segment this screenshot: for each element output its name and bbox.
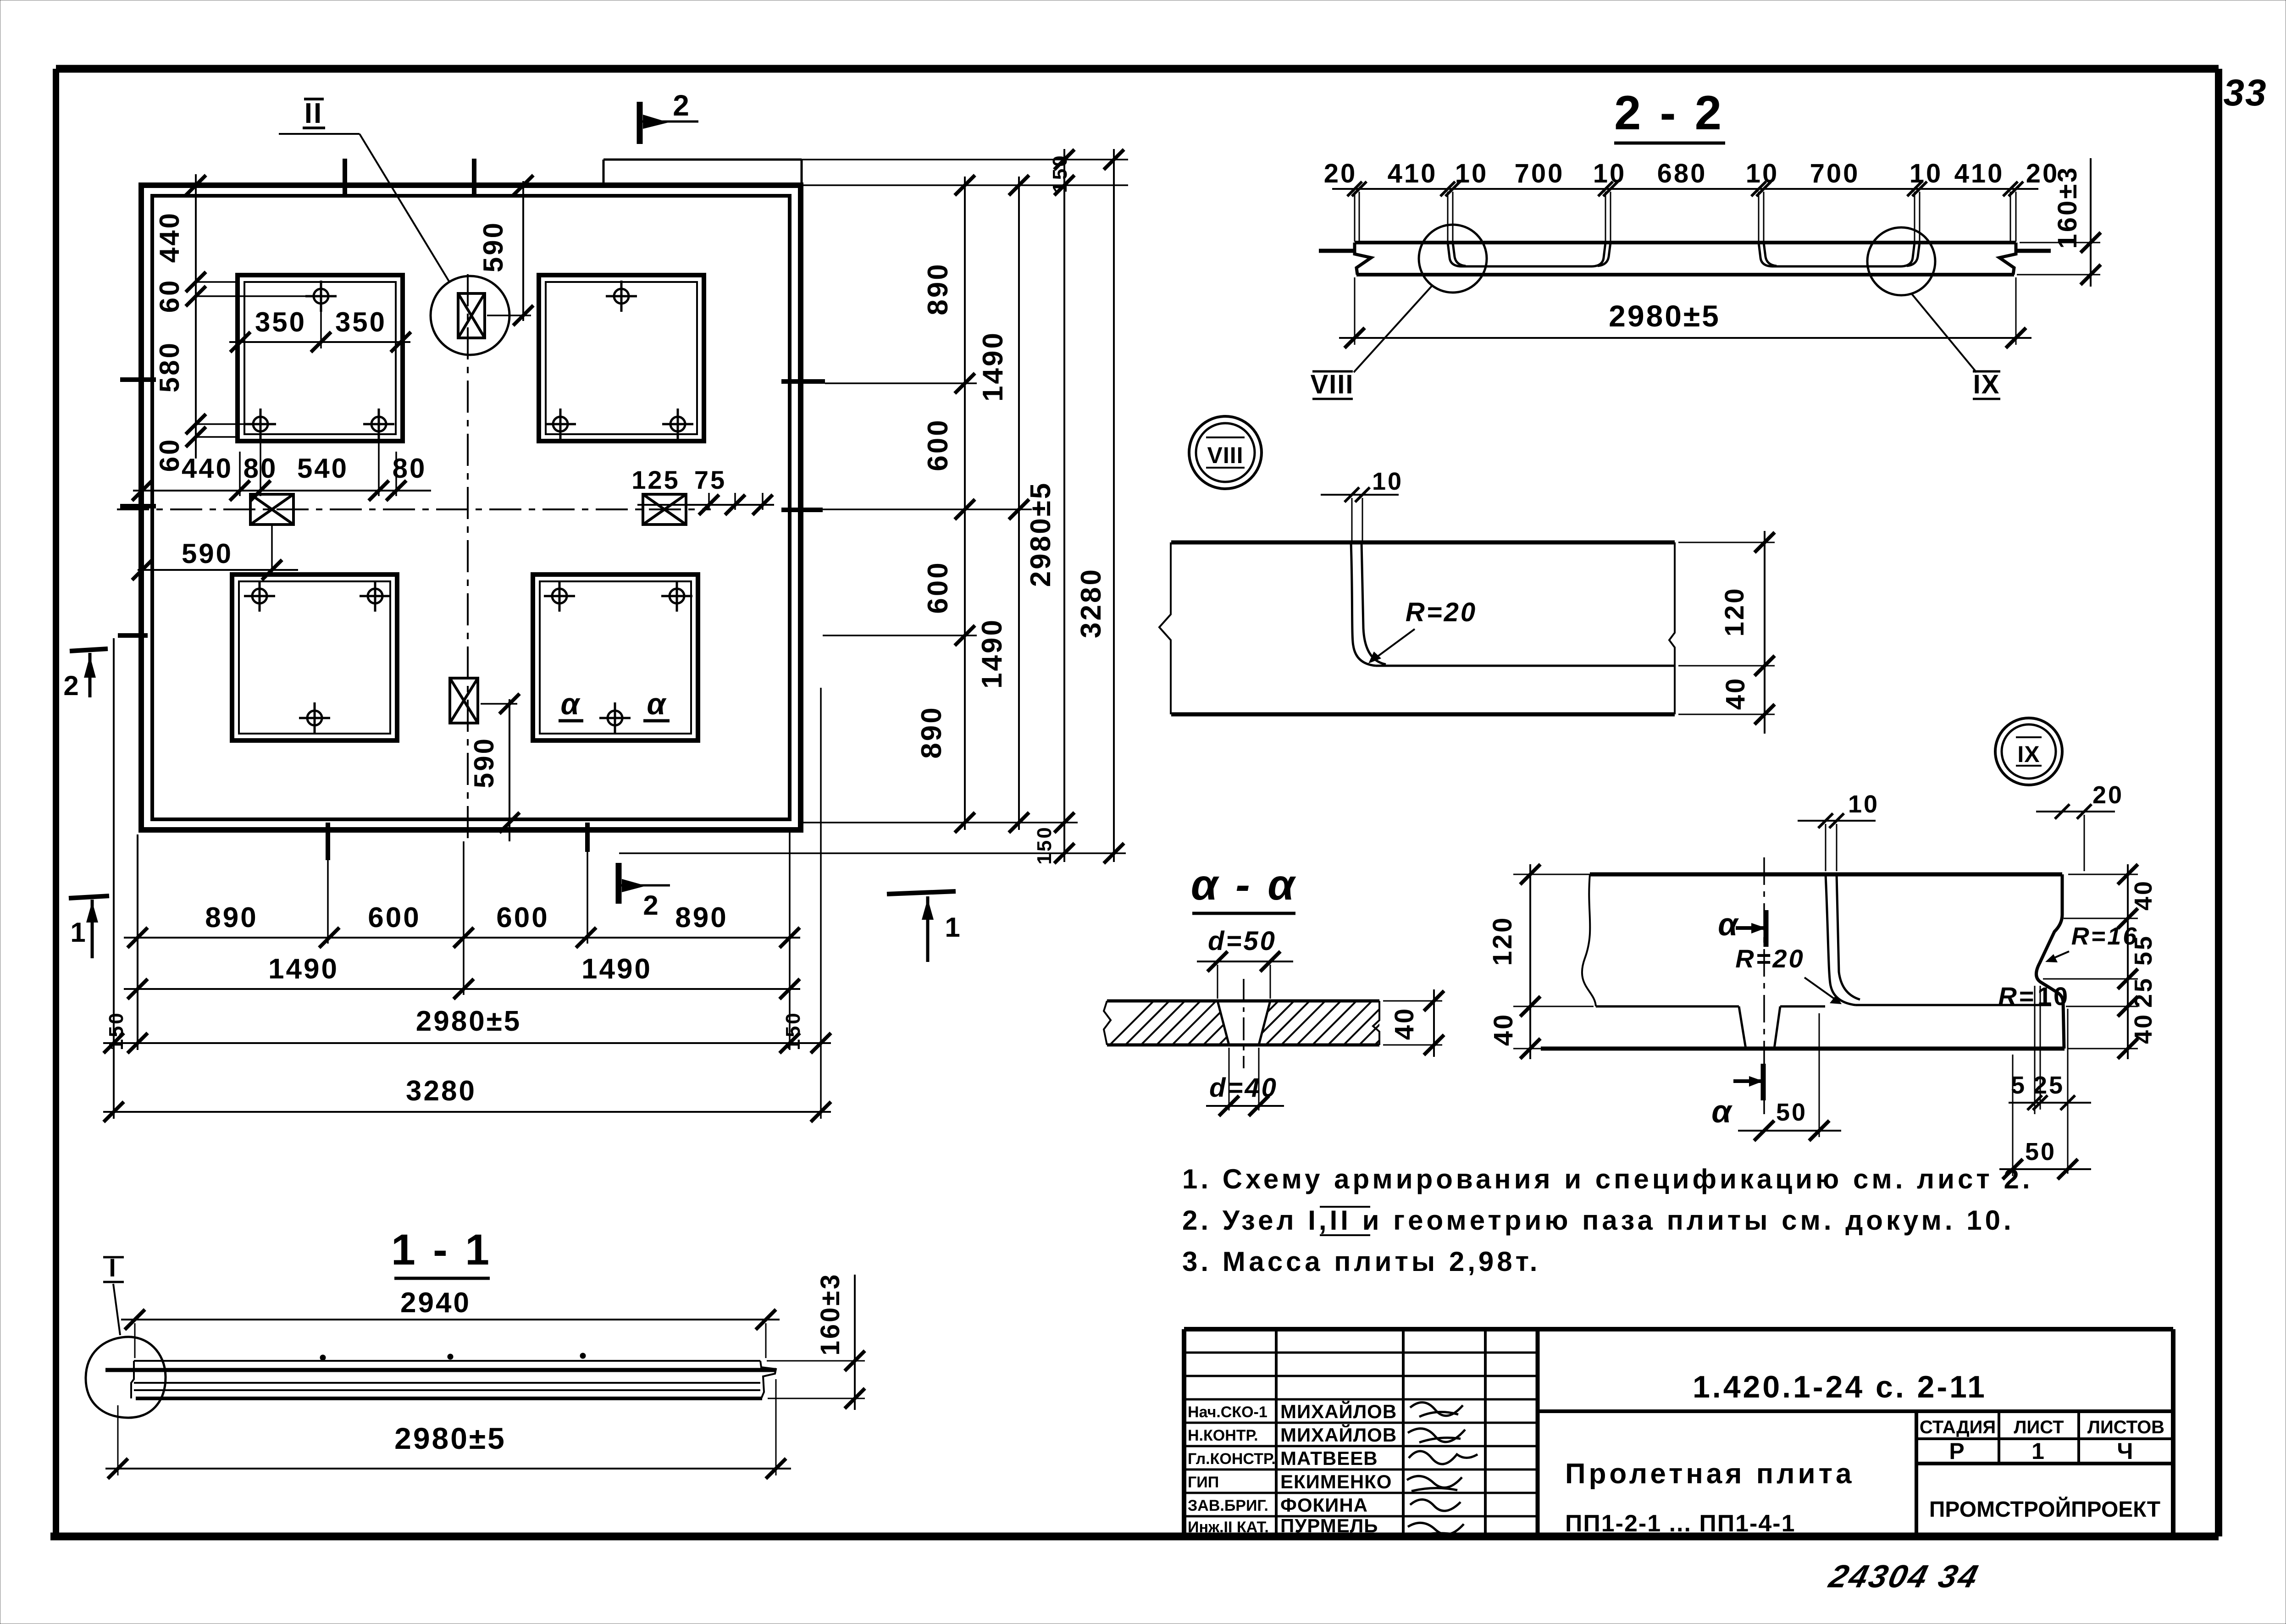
detail IX flange underside bbox=[1596, 1005, 2051, 1006]
svg-text:3280: 3280 bbox=[406, 1075, 476, 1107]
opening bottom-left: inner edge bbox=[239, 581, 390, 734]
section mark 2 (top) bbox=[640, 89, 698, 144]
detail IX bottom dimension 50 bbox=[1999, 1055, 2091, 1179]
detail IX drain hole bbox=[1739, 1006, 1780, 1049]
svg-text:20: 20 bbox=[2092, 781, 2124, 809]
plan view: slab outline (inner) bbox=[152, 196, 790, 819]
detail VIII groove wall with R=20 bbox=[1351, 542, 1675, 666]
detail IX bottom dimensions 5/25 bbox=[2009, 986, 2091, 1174]
leader line to detail II bbox=[279, 134, 449, 282]
svg-text:Пролетная плита: Пролетная плита bbox=[1565, 1458, 1855, 1490]
svg-text:ПП1-2-1 ... ПП1-4-1: ПП1-2-1 ... ПП1-4-1 bbox=[1565, 1510, 1796, 1537]
title block signatures bbox=[1407, 1403, 1478, 1537]
svg-text:1 - 1: 1 - 1 bbox=[391, 1226, 492, 1274]
detail VIII label R=20 bbox=[1368, 597, 1477, 663]
bottom dimension 1490/1490 bbox=[124, 953, 800, 999]
svg-text:600: 600 bbox=[368, 902, 421, 934]
svg-text:590: 590 bbox=[478, 221, 509, 272]
svg-text:VIII: VIII bbox=[1207, 442, 1243, 468]
svg-text:ФОКИНА: ФОКИНА bbox=[1280, 1494, 1368, 1516]
svg-text:890: 890 bbox=[205, 902, 258, 934]
section 2-2 slab top face bbox=[1355, 241, 2016, 244]
svg-text:1490: 1490 bbox=[976, 618, 1008, 689]
svg-text:МАТВЕЕВ: МАТВЕЕВ bbox=[1280, 1447, 1378, 1469]
detail IX dimension 20 (top right) bbox=[2036, 781, 2124, 871]
lifting point targets, bottom-right opening bbox=[544, 580, 692, 734]
title block outer lines bbox=[1184, 1329, 2173, 1536]
svg-text:80: 80 bbox=[393, 453, 427, 484]
opening bottom-right: inner edge bbox=[540, 581, 691, 734]
right dimension 3280 bbox=[1075, 149, 1124, 863]
section 2-2 left groove bbox=[1448, 243, 1611, 266]
svg-text:580: 580 bbox=[154, 341, 185, 392]
right dimension chain 890/600/600/890 bbox=[916, 175, 975, 833]
svg-text:R=20: R=20 bbox=[1406, 597, 1477, 627]
svg-text:1: 1 bbox=[70, 917, 87, 948]
detail IX section cut alpha (top) bbox=[1718, 906, 1766, 947]
detail label II bbox=[303, 98, 325, 129]
svg-text:590: 590 bbox=[182, 538, 233, 569]
opening bottom-left: outer edge bbox=[232, 574, 397, 740]
detail circle IX on section 2-2 bbox=[1867, 227, 1976, 372]
svg-text:20: 20 bbox=[1324, 159, 1357, 188]
detail IX hole centerline bbox=[1763, 857, 1765, 1119]
svg-text:40: 40 bbox=[1489, 1013, 1518, 1046]
label IX bbox=[1973, 370, 2000, 399]
detail IX left break line bbox=[1582, 874, 1596, 1006]
plan vertical centerline bbox=[467, 274, 469, 841]
detail VIII dimension 10 bbox=[1321, 468, 1403, 541]
svg-text:ПРОМСТРОЙПРОЕКТ: ПРОМСТРОЙПРОЕКТ bbox=[1929, 1497, 2160, 1522]
title: PP1-2-1 ... PP1-4-1 bbox=[1565, 1510, 1796, 1537]
svg-text:2980±5: 2980±5 bbox=[416, 1005, 521, 1037]
svg-text:40: 40 bbox=[1721, 677, 1750, 710]
svg-text:40: 40 bbox=[2130, 879, 2157, 911]
right dimension 2980+-5 bbox=[1025, 149, 1074, 865]
detail VIII right break line bbox=[1669, 542, 1675, 714]
svg-text:60: 60 bbox=[154, 438, 185, 472]
title block names bbox=[1280, 1400, 1397, 1536]
section 2-2 title bbox=[1614, 86, 1725, 143]
detail IX top face bbox=[1590, 873, 2062, 877]
svg-text:2980±5: 2980±5 bbox=[394, 1421, 506, 1455]
svg-text:2: 2 bbox=[63, 670, 80, 701]
svg-text:ЕКИМЕНКО: ЕКИМЕНКО bbox=[1280, 1471, 1392, 1492]
section 2-2 dimension 160+-3 bbox=[2017, 158, 2101, 287]
svg-text:600: 600 bbox=[922, 418, 954, 471]
alpha-alpha slab strip with hatching bbox=[1104, 1001, 1466, 1045]
section mark 2 (bottom) bbox=[619, 863, 670, 921]
detail IX section cut alpha (bottom) bbox=[1711, 1064, 1763, 1129]
svg-text:R=20: R=20 bbox=[1735, 944, 1804, 973]
section 2-2 right groove bbox=[1759, 243, 1920, 266]
plan horizontal centerline bbox=[117, 508, 711, 510]
svg-text:540: 540 bbox=[297, 453, 349, 484]
bottom dimension chain 890/600/600/890 bbox=[124, 902, 800, 948]
svg-text:1. Схему армирования и спец: 1. Схему армирования и спецификацию см. … bbox=[1182, 1164, 2033, 1194]
svg-text:2 - 2: 2 - 2 bbox=[1614, 86, 1724, 140]
detail VIII right dimensions 120/40 bbox=[1678, 531, 1775, 734]
section letters alpha-alpha at bottom-right opening bbox=[559, 687, 670, 721]
svg-text:700: 700 bbox=[1810, 159, 1860, 188]
svg-text:2940: 2940 bbox=[400, 1287, 471, 1319]
section 2-2 extension lines bbox=[1355, 192, 2016, 242]
section 1-1 dimension 2940 bbox=[121, 1287, 780, 1358]
svg-text:2: 2 bbox=[673, 89, 691, 122]
svg-text:10: 10 bbox=[1910, 159, 1943, 188]
svg-text:10: 10 bbox=[2037, 982, 2070, 1011]
svg-text:350: 350 bbox=[255, 307, 306, 337]
alpha-alpha dimension d=40 bbox=[1206, 1048, 1284, 1116]
dimension chain 440/80/540/80 (below top-left opening) bbox=[132, 431, 431, 501]
svg-text:10: 10 bbox=[1372, 468, 1403, 495]
svg-text:10: 10 bbox=[1746, 159, 1779, 188]
detail IX left dimensions 120/40 bbox=[1488, 864, 1594, 1059]
title block role labels bbox=[1188, 1403, 1276, 1536]
svg-text:ЛИСТОВ: ЛИСТОВ bbox=[2087, 1417, 2164, 1437]
section 2-2 mid-face stubs bbox=[1319, 249, 2051, 253]
section 2-2 right end profile bbox=[1999, 243, 2016, 275]
svg-text:ЛИСТ: ЛИСТ bbox=[2014, 1417, 2064, 1437]
svg-text:Нач.СКО-1: Нач.СКО-1 bbox=[1188, 1403, 1268, 1421]
svg-text:1: 1 bbox=[945, 912, 962, 943]
svg-text:24304 34: 24304 34 bbox=[1825, 1559, 1983, 1595]
title block grid bbox=[1184, 1329, 2173, 1536]
svg-text:890: 890 bbox=[675, 902, 728, 934]
section 1-1 dimension 2980+-5 bbox=[105, 1379, 791, 1479]
detail IX dimension 10 (top) bbox=[1798, 790, 1879, 871]
svg-text:120: 120 bbox=[1488, 916, 1517, 966]
svg-text:СТАДИЯ: СТАДИЯ bbox=[1920, 1417, 1996, 1437]
lifting point targets, top-left opening bbox=[245, 281, 394, 440]
svg-text:1490: 1490 bbox=[581, 953, 652, 985]
svg-text:40: 40 bbox=[1389, 1007, 1419, 1040]
section 1-1 dimension 160+-3 bbox=[767, 1273, 865, 1410]
bottom dimension 3280 bbox=[103, 1075, 831, 1122]
opening top-left: outer edge bbox=[238, 275, 403, 441]
svg-text:1490: 1490 bbox=[268, 953, 339, 985]
svg-text:d=50: d=50 bbox=[1208, 926, 1277, 956]
svg-text:150: 150 bbox=[105, 1011, 127, 1050]
detail IX bubble bbox=[1995, 718, 2062, 785]
svg-text:75: 75 bbox=[694, 465, 726, 494]
detail label I with leader bbox=[103, 1253, 124, 1335]
svg-text:IX: IX bbox=[1973, 370, 2000, 399]
svg-text:10: 10 bbox=[1455, 159, 1489, 188]
section 2-2 dimension line 20/410/10/700/10/680/10/700/10/410/20 bbox=[1324, 159, 2059, 196]
dimension 590 (left anchor) bbox=[132, 525, 298, 580]
svg-text:700: 700 bbox=[1515, 159, 1565, 188]
section 2-2 dimension 2980+-5 bbox=[1339, 277, 2031, 348]
bottom extension lines bbox=[114, 638, 821, 1119]
anchor symbol left bbox=[250, 494, 293, 525]
detail circle VIII on section 2-2 bbox=[1354, 225, 1487, 372]
detail VIII bubble bbox=[1189, 416, 1262, 489]
section mark 2 (left) bbox=[63, 649, 108, 701]
detail VIII bottom face bbox=[1171, 713, 1675, 717]
svg-text:2980±5: 2980±5 bbox=[1025, 481, 1057, 587]
anchor symbol right bbox=[643, 494, 686, 525]
detail VIII left break line bbox=[1159, 542, 1171, 714]
svg-text:α - α: α - α bbox=[1191, 861, 1297, 909]
right extension lines bbox=[619, 160, 1128, 853]
svg-text:150: 150 bbox=[1033, 825, 1056, 864]
alpha-alpha drain hole bbox=[1218, 979, 1270, 1068]
svg-text:60: 60 bbox=[154, 279, 185, 313]
svg-text:600: 600 bbox=[922, 561, 954, 613]
svg-text:1.420.1-24 с. 2-11: 1.420.1-24 с. 2-11 bbox=[1693, 1370, 1987, 1404]
detail IX label R=20 bbox=[1735, 944, 1842, 1004]
opening top-right: outer edge bbox=[539, 275, 704, 441]
anchor symbol bottom bbox=[450, 678, 478, 723]
anchor symbol top (in detail circle II) bbox=[458, 293, 485, 338]
svg-text:2. Узел I,II и геометрию па: 2. Узел I,II и геометрию паза плиты см. … bbox=[1182, 1205, 2015, 1236]
section 2-2 slab bottom face bbox=[1356, 273, 2014, 276]
svg-text:600: 600 bbox=[496, 902, 549, 934]
svg-text:10: 10 bbox=[1593, 159, 1627, 188]
svg-text:1: 1 bbox=[2031, 1438, 2046, 1464]
document code 1.420.1-24 c.2-11 bbox=[1693, 1370, 1987, 1404]
plan view: top tab (groove key) bbox=[603, 160, 802, 185]
lifting point targets, bottom-left opening bbox=[244, 580, 391, 734]
svg-text:440: 440 bbox=[182, 453, 233, 484]
dimension 125/75 (right anchor) bbox=[631, 465, 774, 515]
note 1 bbox=[1182, 1164, 2033, 1194]
stage/sheet headers bbox=[1920, 1417, 2164, 1437]
svg-text:3. Масса плиты 2,98т.: 3. Масса плиты 2,98т. bbox=[1182, 1246, 1540, 1277]
svg-text:410: 410 bbox=[1954, 159, 2004, 188]
svg-text:410: 410 bbox=[1388, 159, 1438, 188]
detail blob circle I bbox=[86, 1337, 166, 1418]
detail IX edge profile with R=16/R=10 notch bbox=[2036, 874, 2064, 1049]
svg-text:80: 80 bbox=[244, 453, 278, 484]
svg-text:25: 25 bbox=[2033, 1072, 2065, 1099]
svg-text:Ч: Ч bbox=[2117, 1438, 2135, 1464]
svg-text:590: 590 bbox=[469, 737, 499, 788]
svg-text:Гл.КОНСТР.: Гл.КОНСТР. bbox=[1188, 1450, 1276, 1468]
svg-text:R=: R= bbox=[1998, 982, 2035, 1011]
svg-text:40: 40 bbox=[2130, 1013, 2157, 1044]
svg-text:2: 2 bbox=[643, 890, 660, 921]
detail circle around top anchor bbox=[431, 276, 509, 355]
svg-text:120: 120 bbox=[1720, 587, 1749, 637]
section 2-2 left end profile bbox=[1355, 243, 1371, 275]
svg-text:IX: IX bbox=[2017, 741, 2040, 767]
svg-text:ЗАВ.БРИГ.: ЗАВ.БРИГ. bbox=[1188, 1497, 1268, 1514]
note 2 bbox=[1182, 1205, 2015, 1236]
note 3 bbox=[1182, 1246, 1540, 1277]
detail IX dimension 50 (hole) bbox=[1738, 1013, 1841, 1141]
opening top-right: inner edge bbox=[546, 282, 697, 434]
stage/sheet values bbox=[1949, 1438, 2135, 1464]
svg-text:α: α bbox=[1718, 906, 1739, 942]
svg-text:α: α bbox=[647, 687, 668, 721]
section mark 1 (bottom right) bbox=[887, 891, 962, 962]
svg-text:II: II bbox=[304, 98, 323, 129]
svg-text:890: 890 bbox=[916, 706, 947, 758]
svg-text:3280: 3280 bbox=[1075, 568, 1107, 638]
dimension chain 440/60/580/60 (left of plan) bbox=[154, 174, 312, 472]
section mark 1 (left) bbox=[69, 896, 109, 958]
dimension 590 (bottom anchor) bbox=[469, 694, 520, 841]
svg-text:680: 680 bbox=[1657, 159, 1707, 188]
detail IX bottom face bbox=[1541, 1047, 2065, 1051]
detail VIII top face bbox=[1171, 541, 1675, 545]
detail IX label R=16 bbox=[2045, 922, 2138, 962]
svg-text:160±3: 160±3 bbox=[2053, 166, 2082, 249]
cut trace stubs on plan edges bbox=[118, 159, 825, 860]
plan view: slab outline (outer) bbox=[141, 185, 801, 830]
svg-text:1490: 1490 bbox=[977, 331, 1009, 402]
right dimension 1490/1490 bbox=[976, 175, 1029, 833]
svg-text:150: 150 bbox=[1049, 154, 1071, 193]
lifting point targets, top-right opening bbox=[545, 281, 693, 440]
svg-text:55: 55 bbox=[2130, 934, 2157, 966]
svg-text:160±3: 160±3 bbox=[815, 1273, 845, 1356]
alpha-alpha dimension d=50 bbox=[1197, 926, 1293, 999]
label VIII bbox=[1310, 370, 1354, 399]
organization PROMSTROYPROEKT bbox=[1929, 1497, 2160, 1522]
svg-text:890: 890 bbox=[922, 262, 954, 315]
svg-text:2980±5: 2980±5 bbox=[1609, 299, 1721, 333]
archive number 24304 34 bbox=[1825, 1559, 1983, 1595]
svg-text:50: 50 bbox=[1776, 1099, 1807, 1126]
alpha-alpha dimension 40 bbox=[1383, 989, 1444, 1057]
page number 33 bbox=[2223, 72, 2267, 114]
svg-text:10: 10 bbox=[1848, 790, 1879, 818]
detail IX groove wall with R=20 bbox=[1826, 874, 1860, 1005]
svg-text:α: α bbox=[561, 687, 581, 721]
svg-text:125: 125 bbox=[631, 465, 680, 494]
svg-text:33: 33 bbox=[2223, 72, 2267, 114]
opening bottom-right: outer edge bbox=[533, 574, 698, 740]
detail IX label R=10 bbox=[1998, 982, 2070, 1114]
title: Proletnaya plita bbox=[1565, 1458, 1855, 1490]
svg-text:Инж.II КАТ.: Инж.II КАТ. bbox=[1188, 1519, 1269, 1536]
dimension 590 (top anchor) bbox=[478, 175, 533, 326]
svg-text:ПУРМЕЛЬ: ПУРМЕЛЬ bbox=[1280, 1515, 1378, 1536]
dimension 350/350 (inside top-left opening) bbox=[229, 304, 411, 352]
svg-text:Р: Р bbox=[1949, 1438, 1966, 1464]
svg-text:МИХАЙЛОВ: МИХАЙЛОВ bbox=[1280, 1400, 1397, 1422]
svg-text:350: 350 bbox=[335, 307, 387, 337]
opening top-left: inner edge bbox=[244, 282, 396, 434]
svg-text:VIII: VIII bbox=[1310, 370, 1354, 399]
svg-text:25: 25 bbox=[2130, 977, 2157, 1008]
section 1-1 title bbox=[391, 1226, 492, 1278]
svg-text:50: 50 bbox=[2025, 1138, 2056, 1166]
section 1-1 slab profile bbox=[105, 1353, 776, 1398]
svg-text:440: 440 bbox=[154, 211, 185, 263]
svg-text:МИХАЙЛОВ: МИХАЙЛОВ bbox=[1280, 1424, 1397, 1446]
svg-text:ГИП: ГИП bbox=[1188, 1474, 1219, 1491]
section alpha-alpha title bbox=[1191, 861, 1297, 913]
bottom dimension 2980+-5 bbox=[103, 1005, 831, 1053]
svg-text:150: 150 bbox=[782, 1011, 804, 1050]
svg-text:α: α bbox=[1711, 1094, 1733, 1129]
detail IX right dimensions 40/55/25/40 bbox=[2043, 864, 2157, 1059]
svg-text:Н.КОНТР.: Н.КОНТР. bbox=[1188, 1427, 1258, 1444]
